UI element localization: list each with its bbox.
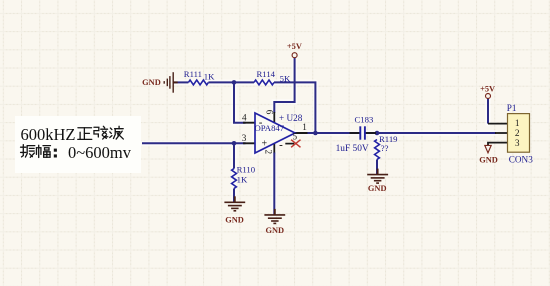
ground (below R110) [224, 196, 245, 224]
wire: R114 left lead [234, 81, 254, 83]
svg-text:5K: 5K [280, 73, 291, 83]
wire: R114 right lead + feedback down to output [274, 82, 315, 133]
note text line2: hanzi zhen-fu (amplitude) + colon [21, 145, 35, 158]
pin 3 stub [243, 142, 256, 144]
wire: node down to pin4 [234, 82, 246, 122]
svg-text:1: 1 [515, 119, 520, 129]
svg-text:??: ?? [381, 143, 389, 153]
svg-text:R114: R114 [257, 69, 276, 79]
pin 4 stub [243, 122, 256, 124]
svg-text:GND: GND [142, 78, 161, 87]
svg-text:-: - [279, 139, 283, 151]
pin 5 stub [285, 143, 294, 145]
resistor R111 [184, 69, 215, 85]
svg-text:+: + [261, 139, 267, 150]
no-connect X on pin 5 [291, 140, 300, 148]
+5V power port (right) [480, 85, 495, 99]
op-amp U28 OPA847 [242, 110, 308, 155]
svg-text:-: - [259, 117, 263, 128]
svg-text:GND: GND [368, 184, 387, 193]
svg-text:1uF 50V: 1uF 50V [336, 144, 369, 154]
svg-text:C183: C183 [355, 115, 374, 125]
svg-text:4: 4 [242, 112, 247, 122]
ground (below op-amp pin 2) [264, 209, 285, 235]
svg-text:R111: R111 [184, 69, 202, 79]
svg-text:2: 2 [515, 129, 520, 139]
svg-text:GND: GND [479, 155, 498, 164]
capacitor C183 [336, 115, 376, 155]
connector pin2 stub [495, 132, 508, 134]
wire: +5V right down [487, 98, 489, 123]
wire: R110 bottom lead to GND [233, 189, 235, 203]
svg-text:GND: GND [265, 226, 284, 235]
wire: output to C183 [308, 132, 361, 134]
svg-text:GND: GND [225, 216, 244, 225]
junction node A (R111/R114/pin4) [232, 80, 237, 85]
svg-text:3: 3 [515, 139, 520, 149]
junction on output net (feedback) [313, 131, 318, 136]
svg-text:2: 2 [263, 150, 273, 155]
wire: +5V down, over to pin6 [274, 58, 294, 113]
note text box (600kHZ sine wave, amplitude 0~600mv) [15, 116, 141, 173]
junction input net / R110 [232, 141, 237, 146]
wire: R111 right lead to node [208, 81, 234, 83]
note text line1: hanzi zheng-xian-bo (sine wave) [78, 128, 92, 140]
ground (below R119) [367, 169, 388, 193]
wire: C183 to R119 node and on to connector [365, 132, 496, 134]
connector pin3 stub + drop to GND arrow [488, 143, 508, 146]
svg-text:0~600mv: 0~600mv [68, 143, 132, 162]
svg-text:R110: R110 [237, 165, 256, 175]
svg-text:1K: 1K [237, 175, 248, 185]
svg-text:CON3: CON3 [509, 154, 533, 164]
svg-text:1: 1 [302, 122, 307, 132]
pin 2 stub + wire down to GND [273, 143, 275, 154]
svg-text:600kHZ: 600kHZ [21, 125, 76, 144]
connector pin1 stub [488, 123, 508, 125]
wire: R111 left lead from GND [173, 81, 188, 83]
+5V power port (center) [287, 42, 302, 58]
connector P1 CON3 [507, 103, 533, 164]
resistor R110 [232, 165, 256, 189]
ground (left, at R111) [142, 72, 178, 93]
resistor R114 [254, 69, 291, 85]
wire: R119 bottom lead to GND [376, 160, 378, 175]
junction C183/R119 node [375, 131, 380, 136]
halo [142, 58, 496, 215]
wire: R110 top lead [233, 143, 235, 168]
GND power port arrow (right) [479, 145, 498, 164]
svg-text:1K: 1K [204, 71, 215, 81]
pin 6 stub [273, 112, 275, 123]
resistor R119 [375, 134, 398, 160]
svg-text:+ U28: + U28 [279, 113, 303, 123]
svg-text:5: 5 [293, 132, 298, 142]
svg-text:+5V: +5V [287, 42, 302, 51]
svg-text:P1: P1 [507, 103, 517, 113]
pin 1 output stub [295, 132, 308, 134]
svg-text:3: 3 [242, 133, 247, 143]
wire: input net to pin3 [142, 142, 246, 144]
svg-text:+5V: +5V [480, 85, 495, 94]
svg-text:6: 6 [265, 110, 275, 115]
